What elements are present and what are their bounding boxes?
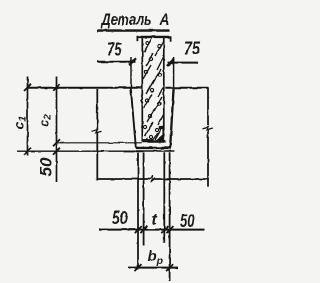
svg-text:50: 50 (112, 208, 128, 228)
svg-text:75: 75 (184, 38, 201, 58)
svg-text:А: А (159, 11, 170, 29)
svg-text:75: 75 (107, 39, 122, 59)
svg-text:50: 50 (180, 211, 195, 231)
svg-text:t: t (152, 212, 158, 229)
svg-text:Деталь: Деталь (100, 11, 152, 29)
svg-text:50: 50 (37, 157, 56, 177)
